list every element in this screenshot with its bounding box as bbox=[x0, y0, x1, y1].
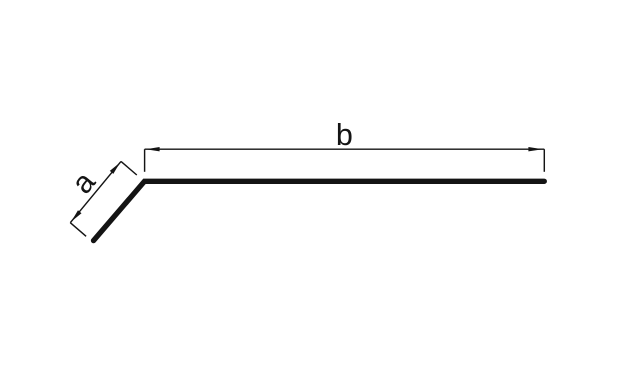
dimension line a bbox=[70, 161, 121, 222]
arrowhead a lower bbox=[71, 210, 81, 221]
dimension line b bbox=[145, 148, 545, 150]
extension line a lower bbox=[70, 223, 86, 237]
extension line b left bbox=[144, 149, 146, 172]
arrowhead b left bbox=[146, 147, 160, 151]
profile sheet (thick bent line) bbox=[94, 181, 545, 240]
arrowhead a upper bbox=[110, 163, 120, 174]
extension line b right bbox=[543, 149, 545, 172]
extension line a upper bbox=[121, 161, 137, 175]
svg-text:b: b bbox=[336, 118, 353, 152]
arrowhead b right bbox=[528, 147, 542, 151]
